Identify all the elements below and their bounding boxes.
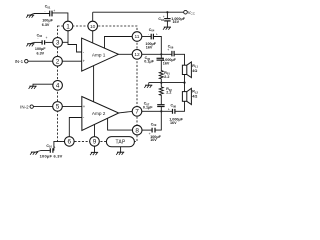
svg-text:-: -: [44, 10, 45, 14]
pin 5: [53, 102, 63, 112]
input terminal IN-1: [25, 60, 28, 63]
svg-text:+: +: [156, 32, 158, 36]
wire pin9 to ground: [94, 146, 96, 152]
svg-text:16V: 16V: [146, 46, 153, 50]
input terminal IN-2: [30, 105, 33, 108]
wire TAP to ground: [120, 147, 122, 152]
ground: [30, 151, 40, 155]
svg-text:+: +: [83, 59, 86, 64]
svg-text:Amp 1: Amp 1: [92, 52, 106, 57]
svg-text:-: -: [83, 115, 85, 120]
svg-text:2.2: 2.2: [164, 75, 169, 79]
svg-text:Amp 2: Amp 2: [92, 111, 106, 116]
pin 12: [132, 50, 142, 60]
svg-text:C10: C10: [46, 144, 52, 149]
svg-text:VCC: VCC: [188, 10, 196, 16]
svg-text:C08: C08: [171, 104, 177, 109]
svg-text:6.3V: 6.3V: [42, 23, 50, 27]
wire: [28, 60, 53, 62]
node junction: [166, 11, 168, 13]
pin 10: [88, 21, 98, 31]
wire C09 up to output node: [155, 111, 161, 130]
pin 8: [132, 125, 142, 135]
svg-text:11: 11: [135, 34, 140, 40]
wire C08 to speaker RL2: [175, 101, 184, 111]
wire: [45, 41, 53, 43]
svg-text:4Ω: 4Ω: [192, 69, 197, 73]
svg-text:+: +: [168, 107, 170, 111]
wire pin3 to node: [62, 41, 68, 43]
node junction: [160, 110, 162, 112]
wire C04 to output node: [153, 37, 161, 55]
svg-text:12: 12: [134, 52, 140, 58]
svg-text:+: +: [149, 132, 151, 136]
ground: [144, 83, 152, 88]
svg-text:+: +: [167, 48, 169, 52]
op-amp Amp 1: [82, 38, 119, 71]
wire pin6 to C10: [41, 141, 65, 150]
pin 3: [53, 38, 63, 48]
capacitor C04: [151, 34, 153, 40]
wire pin11 to C04: [142, 36, 151, 38]
pin circles: [53, 21, 142, 146]
wire pin1 down and to amp1 inverting input: [68, 31, 82, 52]
ground: [116, 152, 124, 155]
power terminal Vcc: [184, 10, 188, 14]
wire pin2 to amp1 + input: [62, 60, 81, 62]
wire amp2 output to pin7: [119, 111, 133, 113]
ground: [29, 86, 37, 89]
node junction: [160, 53, 162, 55]
capacitor C01: [50, 11, 52, 17]
svg-text:-: -: [148, 32, 149, 36]
svg-text:+: +: [53, 9, 55, 13]
capacitor C02: [42, 40, 45, 44]
capacitor C05 zobel1: [160, 54, 162, 58]
ground: [26, 14, 34, 18]
pin 11: [132, 32, 142, 42]
svg-text:6: 6: [68, 139, 72, 146]
speaker RL2: [182, 88, 191, 104]
svg-text:2: 2: [56, 59, 60, 66]
ground: [26, 42, 34, 46]
svg-text:0.1μF: 0.1μF: [143, 105, 153, 109]
svg-text:2.2: 2.2: [166, 90, 171, 94]
capacitor C06: [172, 51, 174, 57]
svg-text:4: 4: [56, 83, 60, 90]
wire: [34, 13, 50, 15]
wire amp1 output to pin12: [118, 53, 132, 55]
svg-text:3: 3: [56, 40, 60, 47]
ground: [90, 152, 98, 155]
svg-text:1: 1: [66, 23, 70, 30]
svg-text:5: 5: [56, 104, 60, 111]
svg-text:RL2: RL2: [192, 90, 198, 95]
capacitor C03 supply: [166, 12, 168, 18]
pin numbers: [56, 23, 140, 145]
svg-text:C04: C04: [149, 28, 155, 33]
svg-text:0.1μF: 0.1μF: [144, 60, 154, 64]
op-amp Amp 2: [82, 97, 119, 131]
wire pin6 up to amp2 - input: [69, 118, 82, 137]
svg-text:100μF: 100μF: [42, 18, 53, 22]
value labels: [35, 17, 197, 159]
svg-text:16V: 16V: [170, 121, 177, 125]
wire: [34, 41, 42, 43]
capacitor C08: [173, 109, 175, 114]
wire: [52, 13, 68, 21]
svg-text:C01: C01: [45, 5, 51, 10]
svg-text:IN-1: IN-1: [15, 59, 24, 64]
svg-text:6.3V: 6.3V: [37, 52, 45, 56]
Vcc rail wire: [93, 11, 184, 13]
polarity marks: [37, 9, 170, 149]
svg-text:C09: C09: [151, 123, 157, 128]
amp input signs: [83, 50, 86, 121]
svg-text:8: 8: [135, 127, 139, 134]
ground: [163, 27, 171, 30]
resistor R02: [159, 83, 163, 105]
capacitor C07 zobel2: [157, 105, 164, 107]
capacitor C09: [152, 128, 155, 133]
speaker RL1: [182, 62, 191, 78]
wire speaker link: [184, 75, 186, 92]
wire C06 to speaker RL1: [174, 54, 184, 65]
capacitor C10: [50, 148, 53, 153]
wire pin7 to node: [142, 110, 173, 112]
svg-text:10V: 10V: [150, 138, 157, 142]
pin 4: [53, 81, 63, 91]
wire: [33, 106, 52, 108]
ground wire mid: [149, 82, 185, 84]
svg-text:100μF: 100μF: [35, 47, 46, 51]
svg-text:IN-2: IN-2: [20, 104, 29, 109]
svg-text:16V: 16V: [173, 20, 180, 24]
wire pin10 stem up to rail: [92, 12, 94, 21]
TAP terminal: [106, 137, 134, 147]
svg-text:16V: 16V: [163, 62, 170, 66]
svg-text:4Ω: 4Ω: [192, 95, 197, 99]
wire pin10 to amp1 top slope: [92, 31, 94, 43]
svg-text:+: +: [54, 145, 56, 149]
svg-text:9: 9: [93, 139, 97, 146]
svg-text:+: +: [163, 15, 165, 19]
IC dashed outline: [58, 26, 138, 141]
wire pin9 to amp2 slope: [94, 124, 96, 136]
pin 9: [90, 137, 100, 147]
pin 2: [53, 56, 63, 66]
pin 1: [63, 21, 73, 31]
svg-text:10: 10: [90, 24, 96, 30]
resistor R01: [159, 60, 163, 82]
svg-text:+: +: [46, 36, 48, 40]
svg-text:-: -: [83, 50, 85, 55]
wire pin8 bootstrap to amp2 slope: [108, 118, 133, 130]
svg-text:100μF 6.3V: 100μF 6.3V: [40, 154, 63, 159]
wire pin4 to ground: [33, 84, 53, 86]
wire pin11 bootstrap to amp1 slope: [105, 37, 133, 49]
wire amp1 lower slope to amp2 upper slope: [93, 66, 95, 102]
pin 6: [65, 137, 75, 147]
wire pin5 to amp2 + input: [62, 105, 82, 107]
svg-text:+: +: [83, 104, 86, 109]
wire pin12 to node: [142, 53, 172, 55]
svg-text:TAP: TAP: [116, 139, 126, 145]
svg-text:-: -: [37, 37, 38, 41]
pin 7: [132, 107, 142, 117]
svg-text:7: 7: [135, 109, 139, 116]
wire pin8 to C09: [142, 129, 152, 131]
